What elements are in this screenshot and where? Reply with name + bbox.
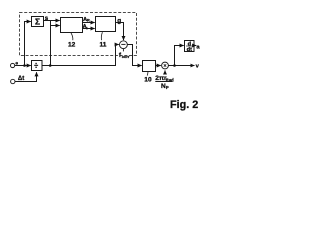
svg-text:10: 10 xyxy=(144,77,152,84)
svg-text:R: R xyxy=(87,18,90,23)
svg-text:I: I xyxy=(86,25,87,30)
svg-text:12: 12 xyxy=(68,41,76,48)
svg-text:Δt: Δt xyxy=(18,76,24,82)
svg-text:11: 11 xyxy=(100,41,107,48)
svg-text:e: e xyxy=(15,62,18,67)
svg-text:s: s xyxy=(45,15,49,22)
svg-text:g: g xyxy=(117,17,121,24)
svg-text:a: a xyxy=(196,45,200,51)
svg-text:Fig. 2: Fig. 2 xyxy=(170,99,198,111)
svg-text:P: P xyxy=(166,85,169,90)
svg-text:v: v xyxy=(196,64,200,70)
svg-text:dt: dt xyxy=(187,47,192,53)
svg-text:corr: corr xyxy=(122,54,130,59)
svg-text:Σ: Σ xyxy=(35,17,40,27)
